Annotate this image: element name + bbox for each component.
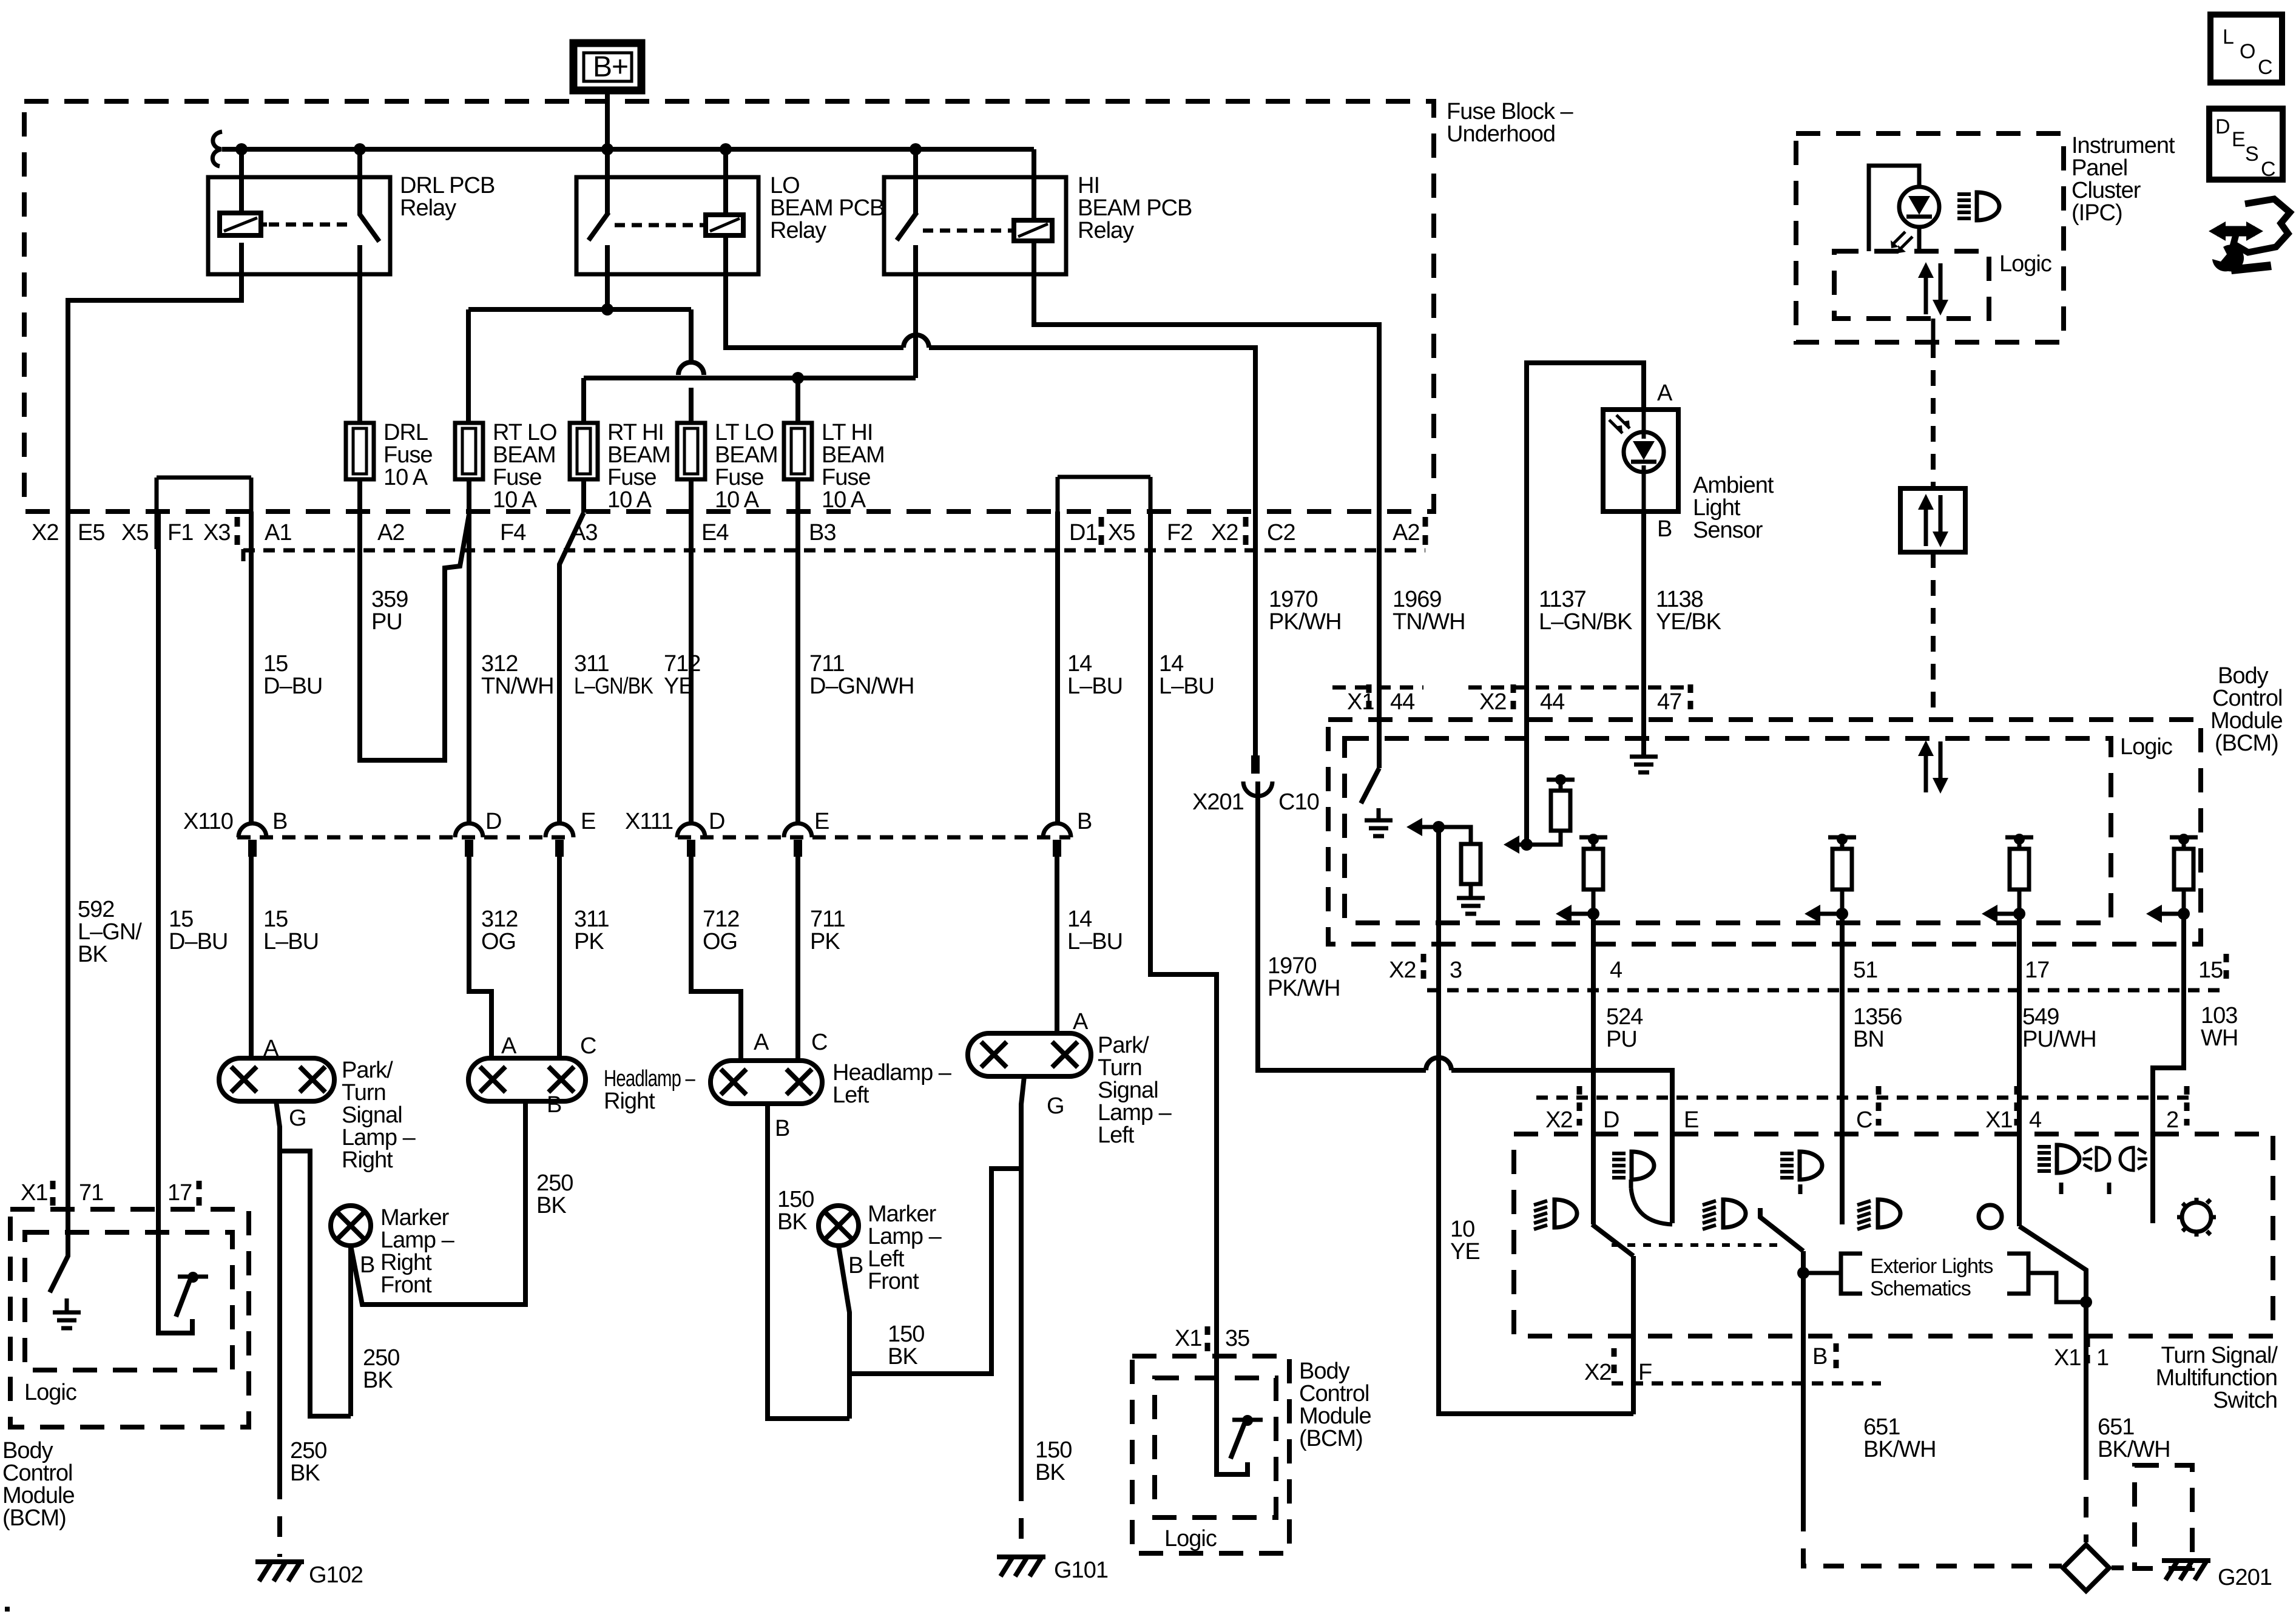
DRL relay link dashed: [269, 223, 351, 227]
svg-text:10 A: 10 A: [715, 487, 760, 513]
label 14 L-BU lower: [1067, 906, 1123, 954]
dashed box near G201: [2135, 1465, 2192, 1568]
svg-text:A: A: [263, 1036, 279, 1061]
ambient light sensor box: [1603, 410, 1678, 511]
svg-text:Left: Left: [832, 1082, 869, 1108]
label 311 PK: [574, 906, 609, 954]
svg-text:TN/WH: TN/WH: [1393, 609, 1465, 635]
svg-text:10 A: 10 A: [822, 487, 866, 513]
label Marker Lamp Left Front: [868, 1201, 942, 1294]
label 15 D-BU lower: [169, 906, 228, 954]
icon high beam group1: [1612, 1152, 1654, 1180]
svg-text:Lamp –: Lamp –: [342, 1125, 416, 1150]
node bus DRL coil: [235, 143, 248, 155]
label 711 PK: [810, 906, 845, 954]
DRL relay coil: [220, 213, 267, 235]
wire marker right B to headlamp right B: [351, 1101, 525, 1305]
svg-text:G: G: [289, 1106, 306, 1131]
wire A2 1969 down to BCM X1-44: [1377, 511, 1382, 768]
svg-text:Signal: Signal: [342, 1102, 402, 1128]
wire DRL switch pin: [357, 149, 362, 215]
label 1970 PK/WH lower: [1268, 953, 1340, 1001]
svg-text:E4: E4: [701, 520, 729, 545]
wire E4 712 down to X111 D: [689, 511, 694, 823]
wire DRL fuse to A2: [357, 479, 362, 511]
lamp Park/Turn Signal Left: [968, 1033, 1091, 1076]
svg-text:14: 14: [1159, 651, 1184, 677]
lamp Marker Right Front: [331, 1206, 371, 1246]
svg-text:G: G: [1047, 1093, 1064, 1119]
wire 651 B dashed to diamond: [1803, 1511, 2062, 1566]
svg-text:150: 150: [888, 1322, 924, 1347]
svg-text:10: 10: [1450, 1217, 1474, 1242]
label 1970 PK/WH upper: [1269, 587, 1342, 635]
svg-text:Cluster: Cluster: [2071, 178, 2141, 203]
label 150 BK second: [888, 1322, 924, 1369]
svg-text:B: B: [848, 1253, 863, 1278]
svg-text:X5: X5: [1108, 520, 1135, 545]
svg-text:10 A: 10 A: [383, 465, 428, 490]
wire RT HI fuse to A3: [581, 479, 586, 513]
ground G102: [255, 1562, 363, 1588]
ground G101: [997, 1557, 1108, 1583]
svg-text:X2: X2: [1389, 957, 1416, 983]
wire LT LO fuse to E4: [689, 479, 694, 511]
wire hook at bus left end: [212, 132, 222, 166]
icon low beam group2: [1703, 1200, 1746, 1229]
strip dashed separators: [237, 517, 1425, 546]
svg-text:Control: Control: [2, 1460, 73, 1486]
svg-text:X110: X110: [183, 809, 233, 834]
svg-text:X2: X2: [32, 520, 58, 545]
svg-text:Body: Body: [2, 1438, 53, 1463]
lamp Marker Left Front: [819, 1206, 859, 1246]
wire A X111 B to park/turn left: [1055, 857, 1059, 1033]
label pin C headlamp left: [811, 1030, 827, 1055]
svg-text:DRL: DRL: [383, 420, 428, 445]
relay DRL PCB Relay box: [208, 173, 495, 274]
svg-text:BK: BK: [363, 1368, 393, 1393]
svg-text:Logic: Logic: [2120, 734, 2172, 760]
label 1969 TN/WH: [1393, 587, 1465, 635]
svg-text:E: E: [2232, 128, 2245, 151]
wire X110 E to headlamp right C: [557, 857, 562, 1058]
BCM left outer dashed box: [10, 1209, 249, 1427]
label pin B headlamp right: [547, 1092, 561, 1118]
wire sensor pin B 1138: [1644, 511, 1672, 755]
svg-text:BN: BN: [1853, 1027, 1884, 1052]
svg-text:L–BU: L–BU: [1159, 673, 1214, 699]
switch pin 17: [158, 1209, 208, 1333]
label pin A headlamp left: [754, 1030, 769, 1055]
svg-text:OG: OG: [481, 929, 516, 954]
svg-text:Marker: Marker: [868, 1201, 937, 1227]
label 14 L-BU second: [1159, 651, 1214, 699]
strip lower dotted line: [243, 549, 1425, 561]
node bus LO coil: [720, 143, 732, 155]
svg-text:B: B: [775, 1116, 789, 1141]
wire E5 592 down to BCM pin 71: [66, 511, 70, 1209]
label Headlamp Right: [604, 1066, 695, 1114]
label Logic left: [24, 1380, 76, 1405]
IPC dashed box: [1796, 133, 2064, 342]
svg-text:592: 592: [78, 897, 114, 922]
wire G101 dashed: [1019, 1480, 1024, 1552]
connector X110 pin B: [238, 809, 287, 857]
svg-text:BK/WH: BK/WH: [2098, 1437, 2170, 1462]
BCM switch pin 44 to ground: [1361, 768, 1393, 836]
svg-text:YE/BK: YE/BK: [1656, 609, 1721, 635]
label 103 WH: [2201, 1003, 2238, 1051]
svg-text:51: 51: [1853, 957, 1877, 983]
svg-text:B: B: [1812, 1344, 1827, 1369]
wire bus B+ feed: [222, 147, 1034, 152]
strip pin labels row: [32, 520, 1419, 545]
svg-text:BK: BK: [777, 1209, 807, 1235]
wire 10 YE from pin 3: [1439, 827, 1633, 1414]
IPC indicator lamp: [1891, 187, 1939, 253]
wire RT LO fuse to F4: [467, 479, 471, 513]
svg-text:Module: Module: [2, 1483, 75, 1508]
wire X111 D to headlamp left A: [691, 857, 741, 1061]
svg-text:PK: PK: [574, 929, 604, 954]
wire A1 15 down to X110 B: [249, 511, 254, 823]
svg-text:B: B: [360, 1252, 374, 1278]
svg-text:B: B: [272, 809, 287, 834]
svg-text:WH: WH: [2201, 1025, 2238, 1051]
svg-text:Lamp –: Lamp –: [380, 1227, 455, 1253]
svg-text:DRL PCB: DRL PCB: [400, 173, 495, 198]
svg-text:E: E: [581, 809, 595, 834]
svg-text:L–BU: L–BU: [263, 929, 319, 954]
wire DRL coil pin: [239, 149, 244, 213]
LO relay coil: [700, 215, 743, 235]
wire F4 312 down to X110 D: [467, 513, 471, 823]
svg-text:Front: Front: [868, 1269, 919, 1294]
wire DRL switch output to DRL fuse: [357, 245, 362, 423]
wire marker left branch to G wire: [849, 1169, 1021, 1374]
svg-text:L: L: [2223, 25, 2234, 49]
wire HI coil return to A2: [1034, 241, 1379, 511]
svg-text:BEAM PCB: BEAM PCB: [1078, 195, 1192, 221]
svg-text:Fuse: Fuse: [383, 442, 432, 468]
svg-text:F4: F4: [500, 520, 526, 545]
label Body Control Module BCM right: [2210, 663, 2283, 756]
svg-text:BEAM: BEAM: [607, 442, 670, 468]
wire A3 311 down to X110 E: [559, 513, 584, 823]
DESC box: [2209, 109, 2283, 181]
svg-text:L–GN/BK: L–GN/BK: [1539, 609, 1632, 635]
fuse RT HI BEAM Fuse 10A: [570, 420, 670, 513]
wire 1970 to switch E: [1451, 1070, 1672, 1223]
svg-text:Left: Left: [1098, 1122, 1135, 1148]
svg-text:BK: BK: [888, 1344, 917, 1369]
svg-text:14: 14: [1067, 651, 1092, 677]
svg-text:D: D: [485, 809, 501, 834]
svg-text:Underhood: Underhood: [1447, 121, 1555, 147]
wire park/turn left G: [1021, 1076, 1064, 1480]
label Ambient Light Sensor: [1693, 473, 1774, 543]
label 10 YE: [1450, 1217, 1480, 1264]
svg-text:X3: X3: [203, 520, 230, 545]
svg-text:D: D: [1603, 1107, 1619, 1133]
wire headlamp left B down: [768, 1104, 849, 1419]
wire HI switch pin from bus: [913, 149, 918, 214]
serial data dashed link lower: [1931, 552, 1936, 720]
svg-text:10 A: 10 A: [493, 487, 538, 513]
label 250 BK mid: [363, 1345, 399, 1393]
svg-text:F1: F1: [167, 520, 193, 545]
wire DRL coil return to E5: [68, 243, 241, 511]
svg-text:A2: A2: [377, 520, 404, 545]
dashed link diamond to box: [2112, 1565, 2133, 1570]
svg-text:LT HI: LT HI: [822, 420, 873, 445]
svg-text:711: 711: [809, 651, 845, 677]
wire pin 51 1356 BN to switch C: [1840, 914, 1845, 1224]
svg-text:PK/WH: PK/WH: [1268, 976, 1340, 1001]
svg-text:X111: X111: [625, 809, 673, 834]
circle off position: [1979, 1205, 2002, 1228]
BCM outer dashed box: [1328, 720, 2201, 944]
svg-text:44: 44: [1390, 689, 1415, 715]
LO relay link dashed: [615, 223, 703, 228]
label Park/Turn Signal Lamp Left: [1098, 1033, 1172, 1148]
svg-text:BEAM: BEAM: [715, 442, 778, 468]
lamp Headlamp Left: [711, 1061, 822, 1104]
svg-text:C: C: [811, 1030, 827, 1055]
node bus DRL switch: [354, 143, 366, 155]
svg-text:Body: Body: [2218, 663, 2269, 689]
connector box F1 X3: [157, 478, 251, 549]
label 15 D-BU upper: [263, 651, 322, 699]
label 1356 BN: [1853, 1004, 1902, 1052]
label 359 PU: [371, 587, 408, 635]
svg-text:E: E: [1684, 1107, 1698, 1133]
ambient sensor photodiode: [1609, 410, 1664, 511]
svg-text:RT HI: RT HI: [607, 420, 664, 445]
svg-text:17: 17: [2025, 957, 2049, 983]
svg-text:LO: LO: [770, 173, 800, 198]
label Body Control Module BCM mid: [1299, 1359, 1371, 1451]
svg-text:15: 15: [263, 651, 288, 677]
BCM logic dashed box: [1345, 734, 2172, 923]
label X110: [183, 809, 233, 834]
label 549 PU/WH: [2022, 1004, 2096, 1052]
svg-text:D: D: [709, 809, 724, 834]
BCM left connector row X1 71 17: [21, 1180, 199, 1206]
label 1137 L-GN/BK: [1539, 587, 1632, 635]
svg-text:LT LO: LT LO: [715, 420, 774, 445]
svg-text:Module: Module: [1299, 1403, 1371, 1429]
switch pin 35: [1217, 1356, 1263, 1474]
label 711 D-GN/WH: [809, 651, 914, 699]
svg-text:X2: X2: [1479, 689, 1506, 715]
wire X111 E to headlamp left C: [795, 857, 800, 1061]
icon flash to pass: [2082, 1147, 2147, 1194]
svg-text:(IPC): (IPC): [2071, 200, 2122, 226]
svg-text:312: 312: [481, 906, 518, 932]
svg-text:Headlamp –: Headlamp –: [832, 1060, 952, 1085]
wire sensor pin A 1137: [1527, 363, 1673, 755]
svg-text:RT LO: RT LO: [493, 420, 557, 445]
BCM pull-up pin 15: [2146, 834, 2198, 923]
connector X110 pin D: [455, 809, 501, 857]
svg-text:Schematics: Schematics: [1870, 1277, 1971, 1300]
label Instrument Panel Cluster IPC: [2071, 133, 2175, 226]
svg-text:L–BU: L–BU: [1067, 673, 1123, 699]
svg-text:BEAM: BEAM: [493, 442, 556, 468]
svg-text:1970: 1970: [1269, 587, 1318, 612]
label Marker Lamp Right Front: [380, 1205, 455, 1298]
wire LO coil return to C2: [726, 235, 903, 348]
switch blade group1: [1592, 1224, 1633, 1256]
label pin A park/turn left: [1073, 1009, 1089, 1035]
svg-text:250: 250: [363, 1345, 399, 1371]
svg-text:Park/: Park/: [342, 1058, 393, 1083]
svg-text:1356: 1356: [1853, 1004, 1902, 1030]
BCM ground pin 47: [1630, 755, 1658, 772]
svg-text:A: A: [1073, 1009, 1089, 1035]
label 150 BK first: [777, 1187, 814, 1235]
DRL relay switch blade: [359, 214, 379, 241]
svg-text:Logic: Logic: [1999, 251, 2051, 277]
off page ref Exterior Lights Schematics: [1803, 1254, 2086, 1302]
wire marker right B riser: [348, 1246, 353, 1416]
BCM left logic dashed box: [25, 1232, 232, 1370]
svg-text:2: 2: [2166, 1107, 2178, 1133]
label 15 L-BU: [263, 906, 319, 954]
wire LT LO drop with hop: [678, 309, 704, 423]
svg-text:15: 15: [2198, 957, 2223, 983]
icon high beam X1 group: [2038, 1145, 2079, 1194]
svg-text:HI: HI: [1078, 173, 1099, 198]
svg-text:Headlamp –: Headlamp –: [604, 1066, 695, 1092]
svg-text:Multifunction: Multifunction: [2156, 1365, 2277, 1391]
svg-text:PU: PU: [1606, 1027, 1637, 1052]
switch pin 71 blade: [50, 1209, 68, 1292]
wire to X1 pin1: [2084, 1302, 2088, 1459]
wire B+ down to bus: [605, 90, 610, 215]
svg-text:X2: X2: [1545, 1107, 1572, 1133]
connector X111 pin D: [677, 809, 724, 857]
svg-text:A2: A2: [1393, 520, 1419, 545]
relay LO BEAM PCB Relay box: [576, 173, 884, 274]
svg-text:Relay: Relay: [1078, 218, 1134, 243]
svg-text:Switch: Switch: [2213, 1388, 2277, 1413]
wire X5 14 down to BCM X1-35: [1150, 511, 1217, 1356]
IPC logic dashed box: [1834, 251, 2051, 319]
svg-text:Sensor: Sensor: [1693, 518, 1763, 543]
hop 1970 over 10 YE: [1426, 1058, 1451, 1070]
label pin A park/turn right: [263, 1036, 279, 1061]
svg-text:1970: 1970: [1268, 953, 1317, 979]
wire marker left riser: [839, 1246, 849, 1419]
svg-text:X1: X1: [21, 1180, 47, 1206]
wire X110 B to park/turn right A: [249, 857, 254, 1058]
serial data dashed link upper: [1931, 319, 1936, 488]
wire F1 15 D-BU down to BCM pin 17: [156, 511, 161, 1209]
svg-text:L–GN/: L–GN/: [78, 919, 142, 945]
svg-text:359: 359: [371, 587, 408, 612]
label 14 L-BU first: [1067, 651, 1123, 699]
TS bottom separators: [1614, 1338, 2087, 1377]
svg-text:B: B: [1657, 516, 1672, 542]
period bottom left: [5, 1607, 10, 1612]
node bus HI switch: [910, 143, 922, 155]
svg-text:YE: YE: [664, 673, 694, 699]
svg-text:L–BU: L–BU: [1067, 929, 1123, 954]
svg-text:Exterior Lights: Exterior Lights: [1870, 1255, 1993, 1278]
svg-text:1137: 1137: [1539, 587, 1586, 612]
svg-text:C: C: [580, 1033, 596, 1059]
turn signal multifunction switch dashed box: [1514, 1134, 2273, 1336]
label 311 L-GN/BK: [574, 651, 653, 699]
svg-text:47: 47: [1657, 689, 1681, 715]
HI relay link dashed: [923, 229, 1011, 233]
hop LO coil return over HI switch wire: [903, 335, 1255, 511]
node LO switch on rail: [601, 303, 613, 316]
label Turn Signal Multifunction Switch: [2156, 1343, 2278, 1413]
svg-text:(BCM): (BCM): [2215, 731, 2278, 756]
svg-text:A1: A1: [265, 520, 291, 545]
icon low beam right of C: [1857, 1200, 1900, 1229]
TS bottom pin row: [1584, 1344, 2109, 1385]
svg-text:D1: D1: [1069, 520, 1098, 545]
ground pin 71 internal: [53, 1298, 81, 1328]
svg-text:Body: Body: [1299, 1359, 1350, 1384]
svg-text:PK: PK: [810, 929, 840, 954]
connector X111 dashed line: [678, 836, 1070, 840]
label 524 PU: [1606, 1004, 1643, 1052]
svg-text:BEAM: BEAM: [822, 442, 885, 468]
wire LO switch output: [605, 245, 610, 309]
svg-text:3: 3: [1450, 957, 1462, 983]
svg-text:Relay: Relay: [400, 195, 456, 221]
svg-text:250: 250: [290, 1438, 326, 1463]
wire B3 711 down to X111 E: [795, 511, 800, 823]
icon high beam group2: [1780, 1152, 1822, 1194]
label 312 OG: [481, 906, 518, 954]
svg-text:14: 14: [1067, 906, 1092, 932]
svg-text:D–BU: D–BU: [169, 929, 228, 954]
svg-text:Control: Control: [1299, 1381, 1369, 1406]
wire A2 359 PU U-path to F4: [360, 511, 469, 760]
IPC logic arrows: [1918, 262, 1948, 316]
ground G201: [2162, 1561, 2272, 1590]
label pin B marker left: [848, 1253, 863, 1278]
TS bottom dotted bracket: [1612, 1382, 1881, 1386]
wire pin 4 524 PU to switch D: [1591, 914, 1596, 1224]
svg-text:B: B: [1077, 809, 1092, 834]
label 592 L-GN/BK: [78, 897, 142, 967]
svg-text:1969: 1969: [1393, 587, 1442, 612]
label Headlamp Left: [832, 1060, 952, 1108]
wire G102 dashed: [277, 1479, 282, 1557]
label 150 BK third: [1035, 1437, 1072, 1485]
svg-text:Instrument: Instrument: [2071, 133, 2175, 158]
svg-text:G101: G101: [1054, 1558, 1108, 1583]
BCM serial arrows: [1918, 740, 1948, 794]
svg-text:C10: C10: [1278, 789, 1319, 815]
svg-text:BK: BK: [78, 942, 107, 967]
svg-text:(BCM): (BCM): [1299, 1426, 1363, 1451]
wire D1 14 down to X111 B: [1055, 511, 1060, 823]
svg-text:103: 103: [2201, 1003, 2237, 1028]
svg-text:X1: X1: [2054, 1345, 2081, 1371]
svg-text:312: 312: [481, 651, 518, 677]
svg-text:250: 250: [536, 1170, 573, 1196]
svg-text:150: 150: [1035, 1437, 1072, 1463]
